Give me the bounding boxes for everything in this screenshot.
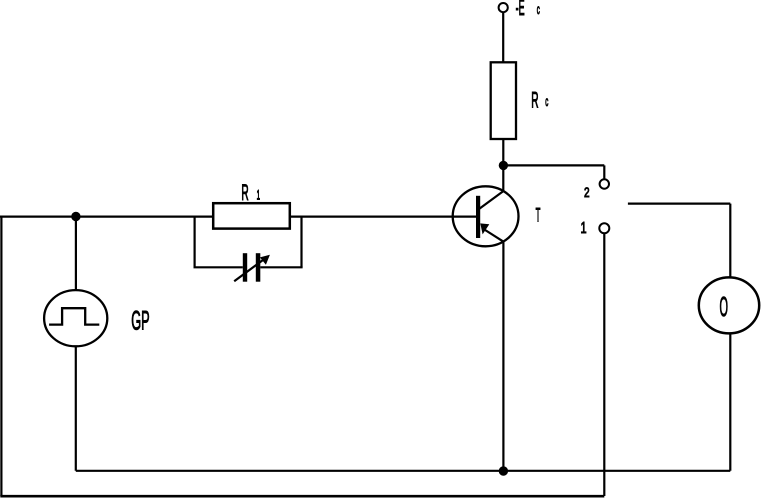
wire R1 branch left vertical bbox=[194, 217, 196, 268]
wire scope top bbox=[729, 204, 731, 278]
wire GP top bbox=[75, 217, 77, 291]
pulse generator GP bbox=[44, 290, 107, 346]
svg-text:1: 1 bbox=[581, 219, 587, 236]
switch contact 1 bbox=[599, 223, 609, 233]
node junction base-GP bbox=[72, 213, 79, 220]
wire R1 branch right vertical bbox=[300, 217, 302, 268]
svg-text:-E: -E bbox=[516, 0, 525, 20]
wire collector node to switch bbox=[503, 164, 604, 166]
label R1 bbox=[241, 179, 260, 205]
svg-text:R: R bbox=[531, 87, 538, 113]
capacitor variable arrow bbox=[234, 255, 270, 281]
svg-text:T: T bbox=[536, 206, 541, 227]
wire left vertical bbox=[0, 216, 2, 497]
capacitor variable plate 2 bbox=[256, 253, 260, 282]
svg-text:c: c bbox=[545, 94, 548, 109]
svg-text:O: O bbox=[720, 293, 728, 323]
switch contact 2 bbox=[600, 179, 609, 188]
label Rc bbox=[531, 87, 548, 113]
wire base main horizontal bbox=[0, 216, 476, 218]
svg-text:c: c bbox=[537, 2, 540, 17]
wire supply to Rc bbox=[502, 12, 504, 63]
resistor R1 bbox=[213, 203, 290, 228]
svg-text:R: R bbox=[241, 179, 248, 205]
node collector junction bbox=[500, 162, 507, 169]
svg-text:2: 2 bbox=[584, 184, 590, 200]
wire Rc to collector node bbox=[502, 139, 504, 192]
node emitter-return junction bbox=[500, 467, 507, 474]
terminal -Ec bbox=[499, 3, 508, 12]
wire capacitor branch left bbox=[194, 266, 243, 268]
transistor T bbox=[453, 186, 519, 246]
capacitor variable plate 1 bbox=[243, 253, 247, 282]
wire bottom inner return bbox=[76, 470, 731, 472]
wire contact 1 down to bottom bbox=[603, 233, 605, 496]
wire GP bottom bbox=[75, 346, 77, 471]
wire emitter down bbox=[502, 242, 504, 471]
svg-text:1: 1 bbox=[257, 188, 260, 203]
svg-text:GP: GP bbox=[131, 306, 149, 335]
wire capacitor branch right bbox=[260, 266, 302, 268]
wire down to contact 2 bbox=[603, 165, 605, 179]
label -Ec bbox=[516, 0, 540, 20]
wire scope bottom bbox=[729, 333, 731, 471]
wire bottom outer bbox=[0, 495, 604, 498]
wire switch arm to scope bbox=[628, 203, 730, 205]
oscilloscope O bbox=[699, 277, 759, 333]
resistor Rc bbox=[491, 62, 516, 139]
